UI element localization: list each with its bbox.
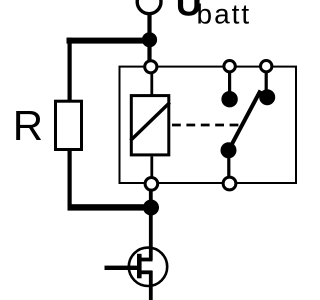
wire: main vertical from coil bottom terminal to node B and drain bbox=[149, 190, 153, 260]
pin: contact bottom terminal bbox=[223, 177, 236, 190]
wire: coil top stem bbox=[150, 73, 153, 95]
wire: vertical below resistor R bbox=[68, 151, 72, 211]
contact dot common (bottom) bbox=[221, 142, 237, 158]
svg-text:R: R bbox=[13, 102, 43, 149]
node A (junction dot) bbox=[142, 32, 157, 47]
wire: stem bottom contact bbox=[227, 158, 230, 177]
switch blade bbox=[229, 91, 261, 151]
transistor gate lead bbox=[105, 266, 139, 270]
resistor R bbox=[56, 101, 82, 149]
transistor T1 body circle bbox=[129, 248, 167, 286]
pin: contact top-left terminal bbox=[224, 60, 235, 71]
wire: source lead down to image edge bbox=[149, 271, 153, 300]
svg-text:batt: batt bbox=[197, 0, 252, 30]
wire: main vertical stem from terminal to relay coil top bbox=[147, 13, 151, 61]
relay coil diagonal bbox=[131, 103, 170, 141]
wire: top horizontal from left branch to node A bbox=[67, 38, 151, 44]
contact dot NC (top-right) bbox=[259, 89, 275, 105]
wire: bottom horizontal to node B bbox=[68, 204, 151, 210]
wire: stem top-left contact bbox=[228, 72, 231, 92]
relay coil K1 bbox=[131, 96, 169, 155]
transistor drain horizontal bbox=[141, 258, 153, 262]
node B (junction dot) bbox=[143, 200, 159, 216]
wire: left vertical down to resistor R bbox=[68, 38, 72, 101]
relay box outline bbox=[120, 67, 297, 183]
wire: stem top-right contact bbox=[265, 72, 268, 90]
contact dot NO (top-left) bbox=[221, 91, 237, 107]
terminal Ubatt (open circle, cut at top) bbox=[137, 0, 161, 14]
dashed actuator link bbox=[172, 124, 240, 127]
pin: coil bottom terminal bbox=[145, 178, 158, 191]
transistor source horizontal bbox=[141, 270, 153, 274]
pin: coil top terminal bbox=[145, 61, 157, 73]
transistor gate bar bbox=[137, 254, 142, 278]
pin: contact top-right terminal bbox=[261, 60, 272, 71]
wire: coil bottom stem bbox=[150, 156, 153, 176]
